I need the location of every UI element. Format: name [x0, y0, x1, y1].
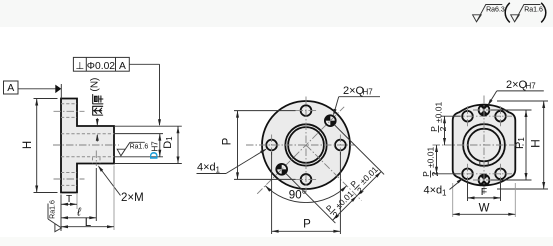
svg-text:±0.01: ±0.01 [434, 102, 444, 123]
svg-text:H7: H7 [526, 82, 537, 91]
svg-text:P: P [303, 219, 311, 231]
svg-text:1: 1 [216, 166, 221, 175]
svg-text:2: 2 [438, 126, 448, 131]
svg-text:Ra1.6: Ra1.6 [524, 6, 543, 13]
svg-text:H: H [528, 139, 542, 148]
svg-text:W: W [479, 203, 490, 215]
svg-text:P: P [222, 137, 234, 145]
svg-text:1: 1 [442, 189, 447, 198]
svg-text:Ra1.6: Ra1.6 [50, 200, 57, 219]
svg-text:±0.01: ±0.01 [426, 147, 436, 168]
svg-text:Φ0.02: Φ0.02 [87, 61, 116, 72]
svg-text:A: A [119, 61, 126, 72]
svg-text:2×M: 2×M [121, 192, 144, 204]
svg-text:A: A [7, 82, 14, 94]
svg-text:DH7: DH7 [149, 141, 161, 160]
svg-text:T: T [66, 194, 72, 205]
svg-text:H7: H7 [363, 88, 374, 97]
svg-text:2×Q: 2×Q [506, 79, 528, 91]
svg-text:⊥: ⊥ [75, 61, 84, 72]
svg-text:F: F [481, 186, 487, 198]
svg-text:4×d: 4×d [197, 162, 216, 174]
svg-text:4×d: 4×d [424, 185, 443, 197]
svg-text:Ra1.6: Ra1.6 [130, 143, 149, 150]
svg-text:(N): (N) [90, 78, 101, 92]
svg-text:Ra6.3: Ra6.3 [486, 6, 505, 13]
svg-text:2: 2 [430, 171, 440, 176]
svg-text:ℓ: ℓ [76, 207, 81, 219]
svg-text:L: L [85, 217, 92, 229]
svg-text:2×Q: 2×Q [343, 85, 365, 97]
svg-text:H: H [22, 141, 34, 149]
